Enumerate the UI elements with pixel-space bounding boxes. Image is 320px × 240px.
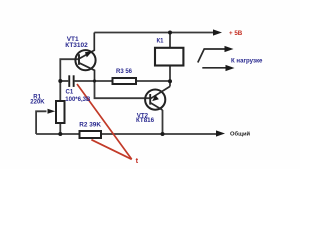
svg-text:R3 56: R3 56 — [116, 69, 133, 75]
node dot R3 / K1 / VT2 — [168, 79, 172, 83]
node dot VT2 collector / rail — [161, 132, 165, 136]
wire C1 node to left plate — [60, 80, 68, 82]
svg-text:100*6,3В: 100*6,3В — [65, 97, 91, 103]
svg-text:t: t — [136, 156, 139, 165]
wire VT2 collector lead — [162, 110, 164, 134]
wire bottom rail left — [36, 133, 79, 135]
node dot R1 bottom — [58, 132, 62, 136]
arrow +5V — [213, 29, 222, 35]
wire K1 to node B — [169, 66, 171, 82]
wire node C down to VT2 base — [95, 81, 151, 98]
wire VT2 emitter to node B — [169, 81, 171, 86]
svg-text:Общий: Общий — [230, 131, 251, 138]
svg-text:+ 5В: + 5В — [229, 30, 243, 37]
capacitor C1 — [68, 75, 74, 87]
svg-text:C1: C1 — [66, 90, 74, 96]
resistor R1 — [56, 101, 65, 123]
wire C1 right plate to R3 — [75, 80, 113, 82]
svg-text:R2 39K: R2 39K — [79, 122, 101, 129]
node dot VT1 emitter junction — [93, 79, 96, 82]
svg-text:К1: К1 — [157, 39, 165, 45]
resistor R3 — [113, 78, 137, 84]
wire top rail — [94, 32, 215, 34]
transistor VT2 — [145, 86, 170, 110]
wire VT1 base to node A to R1 top — [60, 59, 79, 101]
wire bottom rail right — [101, 133, 217, 135]
node dot C1 / R1 / VT1 base — [58, 79, 62, 83]
pointer line to R2 — [91, 140, 131, 160]
svg-text:КТ816: КТ816 — [136, 117, 155, 124]
arrow common — [216, 130, 225, 136]
transistor VT1 — [75, 33, 95, 82]
relay coil K1 — [155, 48, 183, 66]
resistor R2 — [80, 131, 102, 138]
relay contact K1.1 — [198, 49, 227, 68]
wire R1 wiper loop — [36, 111, 46, 134]
pointer line to C1 — [77, 84, 132, 159]
svg-text:КТ3102: КТ3102 — [65, 42, 88, 49]
resistor R1 wiper arrow — [48, 109, 56, 114]
wire R3 to node B — [136, 80, 170, 82]
svg-text:К нагрузке: К нагрузке — [231, 58, 263, 65]
svg-text:220K: 220K — [30, 100, 45, 106]
wire K1 feed from rail — [169, 33, 171, 48]
node dot top rail / K1 — [168, 31, 172, 35]
wire R1 bottom lead — [59, 123, 61, 134]
